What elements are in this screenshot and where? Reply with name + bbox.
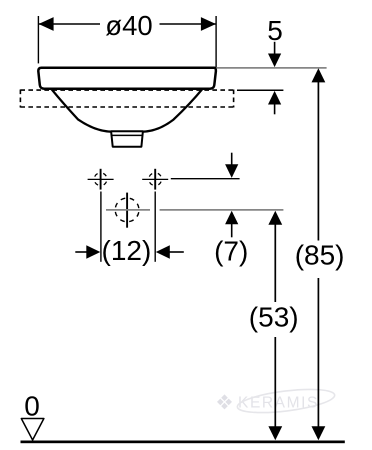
dim (12) right arrow (left-pointing) bbox=[156, 245, 170, 259]
dim 5 lower arrow tail bbox=[274, 104, 276, 114]
dim 5 upper arrow tail bbox=[274, 42, 276, 54]
drain symbol dashed circle bbox=[115, 198, 139, 222]
dim (7) lower tail bbox=[231, 224, 233, 238]
datum triangle bbox=[21, 419, 44, 441]
drain symbol vertical centerline bbox=[126, 193, 128, 228]
dim (85) down arrow bbox=[312, 426, 326, 440]
drain fitting bbox=[111, 131, 143, 147]
drain-level reference line left segment (gray) bbox=[106, 209, 150, 211]
svg-text:(85): (85) bbox=[295, 240, 345, 271]
dim (85) line lower segment bbox=[317, 278, 319, 427]
countertop dashed outline bbox=[20, 90, 233, 108]
svg-text:(53): (53) bbox=[249, 302, 299, 333]
fixing-hole-level reference line bbox=[171, 178, 240, 180]
svg-text:(12): (12) bbox=[102, 235, 152, 266]
drain fitting inner line bbox=[111, 134, 142, 136]
dim (12) right arrow tail bbox=[169, 251, 184, 253]
dim ø40 right extension line bbox=[215, 16, 217, 68]
watermark swoosh ellipse bbox=[236, 385, 336, 417]
fixing hole left symbol bbox=[88, 169, 114, 190]
svg-text:0: 0 bbox=[24, 391, 40, 422]
dim (53) down arrow bbox=[268, 426, 282, 440]
svg-text:ø40: ø40 bbox=[105, 10, 152, 41]
dim ø40 line right segment bbox=[160, 23, 216, 25]
floor line bbox=[21, 441, 345, 444]
dim (12) left arrow tail bbox=[75, 251, 87, 253]
basin bowl bbox=[52, 89, 203, 132]
dim (85) up arrow bbox=[312, 68, 326, 82]
drain-level reference line right segment (gray) bbox=[160, 209, 284, 211]
dim ø40 right arrow bbox=[201, 17, 216, 31]
svg-text:(7): (7) bbox=[214, 235, 248, 266]
dim (7) up arrow bbox=[225, 211, 238, 225]
svg-text:KERAMIS: KERAMIS bbox=[238, 395, 319, 412]
dim (12) left arrow (right-pointing) bbox=[86, 245, 100, 259]
basin rim bbox=[38, 68, 216, 89]
dim (85) line upper segment bbox=[317, 82, 319, 241]
svg-text:5: 5 bbox=[267, 15, 283, 46]
dim (7) upper line bbox=[231, 153, 233, 165]
watermark logo (four diamonds) bbox=[217, 394, 232, 409]
rim-top reference line (gray) bbox=[217, 67, 327, 69]
dim (7) down arrow bbox=[225, 164, 238, 178]
dim ø40 left arrow bbox=[39, 17, 54, 31]
dim (53) line upper segment bbox=[274, 224, 276, 302]
dim (53) line lower segment bbox=[274, 337, 276, 427]
dim ø40 line left segment bbox=[39, 23, 100, 25]
dim (12) left extension line bbox=[100, 192, 102, 262]
dim 5 lower arrow (up) bbox=[268, 91, 281, 105]
dim 5 upper arrow (down) bbox=[268, 54, 281, 68]
fixing hole right symbol bbox=[142, 169, 168, 190]
dim (12) right extension line bbox=[154, 192, 156, 262]
dim (53) up arrow bbox=[268, 211, 282, 225]
dim ø40 left extension line bbox=[37, 16, 39, 63]
countertop-top reference line bbox=[237, 89, 283, 91]
